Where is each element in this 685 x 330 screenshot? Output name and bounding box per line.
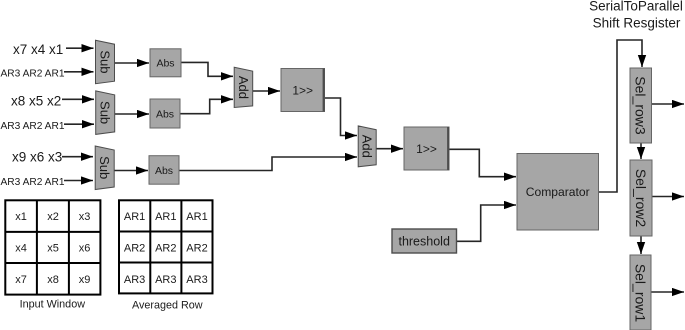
svg-text:Add: Add [360, 135, 375, 158]
svg-text:AR2: AR2 [186, 243, 207, 255]
svg-text:AR3: AR3 [155, 274, 176, 286]
svg-text:AR1: AR1 [124, 211, 145, 223]
svg-text:AR1: AR1 [155, 211, 176, 223]
svg-text:Sel_row3: Sel_row3 [633, 76, 649, 135]
svg-text:Abs: Abs [156, 108, 174, 120]
svg-text:SerialToParallel: SerialToParallel [589, 0, 683, 14]
svg-text:Input Window: Input Window [20, 299, 86, 311]
svg-text:AR1: AR1 [186, 211, 207, 223]
svg-text:Sel_row2: Sel_row2 [633, 169, 649, 228]
svg-text:AR3 AR2 AR1: AR3 AR2 AR1 [1, 121, 65, 132]
svg-text:AR2: AR2 [124, 243, 145, 255]
svg-text:x4: x4 [15, 243, 27, 255]
svg-text:Add: Add [236, 76, 251, 99]
svg-text:x9: x9 [79, 274, 91, 286]
svg-text:Shift Resgister: Shift Resgister [593, 16, 681, 31]
svg-text:1>>: 1>> [416, 142, 437, 156]
svg-text:x7: x7 [15, 274, 27, 286]
svg-text:x7 x4 x1: x7 x4 x1 [13, 42, 63, 57]
svg-text:AR3: AR3 [186, 274, 207, 286]
svg-text:Sub: Sub [98, 50, 113, 73]
svg-text:x8 x5 x2: x8 x5 x2 [11, 93, 61, 108]
svg-text:x5: x5 [47, 243, 59, 255]
svg-text:x1: x1 [15, 211, 27, 223]
svg-text:Comparator: Comparator [526, 185, 590, 199]
svg-text:Sel_row1: Sel_row1 [633, 264, 649, 323]
svg-text:threshold: threshold [398, 235, 449, 249]
svg-text:AR3 AR2 AR1: AR3 AR2 AR1 [1, 68, 65, 79]
svg-text:AR3: AR3 [124, 274, 145, 286]
svg-text:x9 x6 x3: x9 x6 x3 [12, 150, 62, 165]
svg-text:x2: x2 [47, 211, 59, 223]
svg-text:1>>: 1>> [292, 84, 313, 98]
svg-text:Abs: Abs [156, 58, 174, 70]
svg-text:Sub: Sub [97, 156, 112, 179]
svg-text:x6: x6 [79, 243, 91, 255]
svg-text:Abs: Abs [155, 165, 173, 177]
svg-text:x3: x3 [79, 211, 91, 223]
svg-text:Sub: Sub [98, 101, 113, 124]
svg-text:AR2: AR2 [155, 243, 176, 255]
svg-text:x8: x8 [47, 274, 59, 286]
svg-text:Averaged Row: Averaged Row [132, 300, 203, 312]
svg-text:AR3 AR2 AR1: AR3 AR2 AR1 [1, 177, 65, 188]
